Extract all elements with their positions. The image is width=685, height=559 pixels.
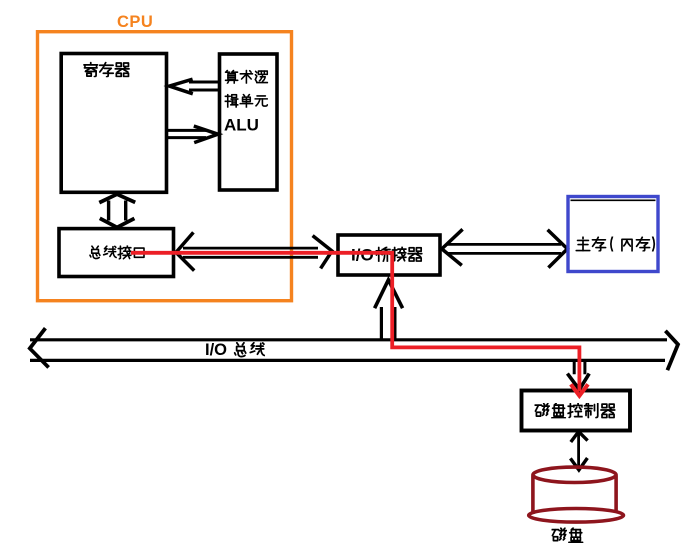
thin black line inside top of memory box bbox=[571, 199, 656, 201]
I/O bus (long horizontal bus with arrow ends) bbox=[30, 328, 678, 370]
red arrow head at disk controller bbox=[571, 384, 588, 396]
arrow disk controller to disk (double headed thin) bbox=[570, 432, 587, 470]
memory bus: I/O bridge to main memory (double line, heads both ends) bbox=[442, 229, 568, 267]
arrow register to ALU (lower, open head right) bbox=[167, 126, 219, 143]
red data path: bus interface -> I/O bridge -> I/O bus -> disk controller bbox=[131, 253, 579, 392]
label 主存（内存） bbox=[576, 237, 654, 251]
label 磁盘控制器 bbox=[535, 403, 615, 418]
svg-text:ALU: ALU bbox=[224, 116, 259, 135]
main memory box (blue) bbox=[568, 197, 658, 272]
disk top ellipse bbox=[533, 467, 616, 482]
label 算术逻 bbox=[225, 70, 267, 83]
bus interface box 总线接口 bbox=[59, 229, 174, 277]
ALU box bbox=[220, 54, 278, 190]
disk controller box 磁盘控制器 bbox=[522, 391, 631, 431]
label 寄存器 bbox=[84, 62, 129, 76]
arrow ALU to register (upper, open head left) bbox=[169, 79, 219, 94]
label 总线接口 bbox=[90, 246, 144, 259]
disk body right wall bbox=[614, 476, 618, 512]
disk cylinder 磁盘 (dark red) bbox=[529, 467, 624, 522]
I/O bridge box bbox=[338, 235, 440, 275]
system bus: bus interface to I/O bridge (double line, heads both ends) bbox=[176, 232, 332, 270]
outline arrow I/O bus down to disk controller bbox=[567, 362, 589, 390]
register box 寄存器 bbox=[61, 54, 166, 193]
svg-text:I/O: I/O bbox=[351, 246, 374, 265]
disk bottom ellipse bbox=[529, 509, 624, 523]
disk body left wall bbox=[531, 476, 535, 515]
label 磁盘 bbox=[552, 528, 582, 543]
svg-text:CPU: CPU bbox=[117, 13, 153, 31]
CPU box (orange outer frame) bbox=[38, 32, 292, 301]
label 辑单元 bbox=[225, 95, 267, 108]
outline arrow I/O bus up to I/O bridge bbox=[375, 280, 403, 340]
svg-text:I/O: I/O bbox=[205, 341, 227, 359]
double-headed outline arrow register to bus interface bbox=[99, 194, 135, 227]
